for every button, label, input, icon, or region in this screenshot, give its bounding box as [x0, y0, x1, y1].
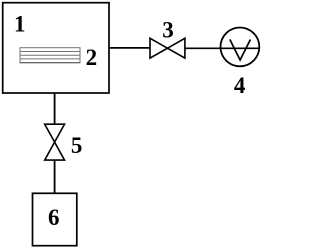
valve V5: [45, 124, 65, 160]
wire box1 to valve5: [54, 93, 56, 125]
valve V3: [150, 38, 185, 58]
svg-text:1: 1: [14, 12, 26, 37]
sample stack 2: [20, 48, 81, 63]
wire box1 to valve3: [109, 47, 151, 49]
pump box 6: [33, 193, 77, 245]
chamber box 1: [3, 3, 109, 93]
wire valve5 to box6: [54, 160, 56, 193]
gauge circle 4: [221, 28, 260, 67]
gauge V symbol: [230, 39, 251, 60]
svg-text:4: 4: [234, 73, 246, 98]
svg-text:6: 6: [48, 205, 60, 230]
svg-text:3: 3: [162, 17, 174, 42]
wire valve3 to gauge4: [184, 47, 259, 49]
svg-text:5: 5: [71, 133, 83, 158]
svg-text:2: 2: [86, 45, 98, 70]
